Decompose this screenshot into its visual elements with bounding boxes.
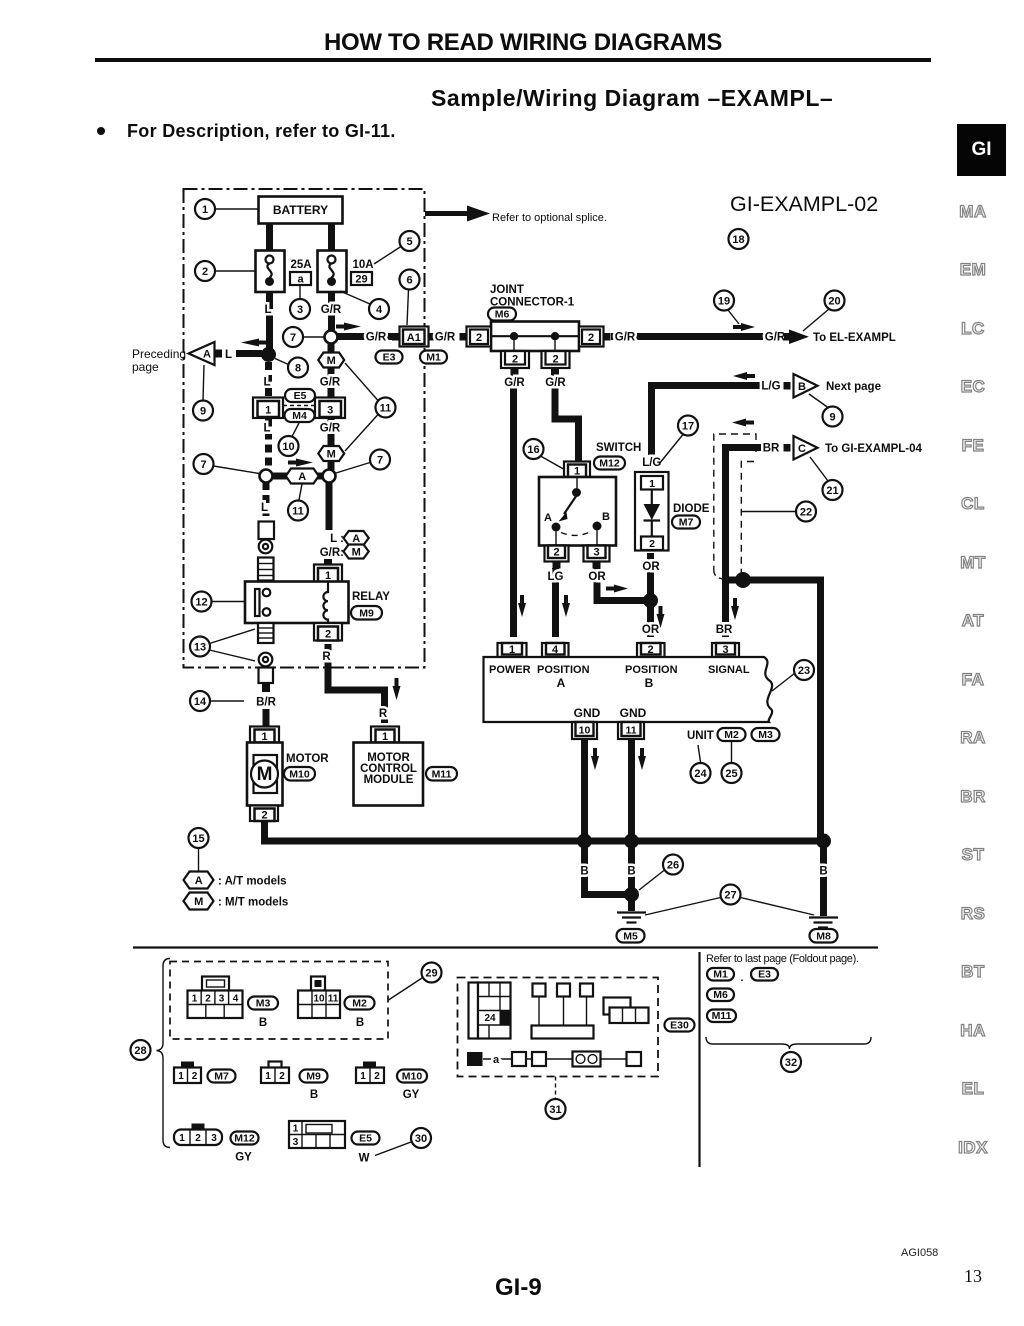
svg-text:11: 11 (380, 403, 392, 415)
motor control module U1 (354, 743, 424, 806)
tag M2 + colour B (345, 997, 375, 1030)
dashed option boundary around BR wire (714, 434, 756, 579)
option hexagon M on G/R branch (318, 343, 344, 398)
svg-text:3: 3 (593, 547, 599, 559)
svg-text:BR: BR (763, 443, 780, 455)
diagram id GI-EXAMPL-02 (730, 192, 878, 216)
callout 1 (195, 199, 258, 219)
fuse rating 25A + box a (290, 259, 312, 286)
svg-text:Preceding: Preceding (132, 347, 186, 361)
svg-text:2: 2 (205, 994, 211, 1005)
tag M12 + colour GY (231, 1132, 259, 1164)
svg-text:21: 21 (826, 485, 838, 497)
callout 31 (546, 1077, 566, 1120)
connector 3 (right branch) (315, 398, 345, 419)
svg-text:19: 19 (718, 296, 730, 308)
battery B1 (259, 197, 343, 224)
label SWITCH (596, 442, 641, 454)
svg-text:M6: M6 (495, 309, 510, 321)
svg-text:1: 1 (509, 644, 515, 656)
svg-text:1: 1 (360, 1071, 366, 1082)
svg-text:G/R: G/R (320, 423, 341, 435)
svg-text:1: 1 (179, 1133, 185, 1144)
junction dot splice 8 (261, 347, 276, 362)
svg-text:M2: M2 (352, 998, 367, 1010)
JC1 bottom pin 2 right (542, 351, 570, 376)
svg-text:: M/T models: : M/T models (218, 897, 288, 909)
svg-text:4: 4 (552, 644, 559, 656)
svg-text:G/R: G/R (504, 377, 525, 389)
switch S1 (539, 477, 616, 546)
svg-text:SIGNAL: SIGNAL (708, 664, 750, 676)
svg-text:10: 10 (313, 994, 325, 1005)
relay pin 1 connector (314, 559, 342, 582)
svg-text:POWER: POWER (489, 664, 531, 676)
svg-text:BATTERY: BATTERY (273, 203, 328, 217)
joint connector label (490, 284, 575, 309)
brace for callout 28 (157, 959, 171, 1148)
svg-text:3: 3 (297, 304, 303, 316)
wire L/G from switch area to next page B (652, 381, 781, 456)
JC1 left pin 2 (460, 327, 492, 347)
callout 25 (722, 742, 742, 784)
svg-text:MOTOR: MOTOR (286, 753, 329, 765)
connector face M2 (298, 977, 340, 1019)
connector tag E5 (285, 389, 315, 402)
svg-text:8: 8 (295, 363, 301, 375)
svg-text:9: 9 (829, 412, 835, 424)
tag M10 + colour GY (397, 1070, 427, 1102)
callout 23 (772, 660, 814, 691)
svg-text:To GI-EXAMPL-04: To GI-EXAMPL-04 (825, 443, 923, 455)
JC1 bottom pin 2 left (501, 351, 529, 376)
junction dot bus left (577, 834, 592, 849)
svg-text:.: . (741, 972, 744, 984)
junction dot OR (643, 593, 658, 608)
tag M3 + colour B (248, 997, 278, 1030)
ground symbol M5 (617, 913, 646, 923)
arrow to EL-EXAMPL (784, 330, 896, 345)
overlapped connector faces inside E30 (604, 998, 649, 1024)
svg-text:18: 18 (732, 234, 744, 246)
callout 21 (810, 457, 843, 500)
svg-text:15: 15 (192, 833, 204, 845)
motor M (M10) (247, 743, 283, 806)
svg-text:14: 14 (194, 696, 207, 708)
svg-text:10A: 10A (352, 259, 373, 271)
flow arrow right on OR wire (606, 585, 628, 593)
connector face M12 (174, 1124, 222, 1146)
callout 3 (290, 285, 310, 319)
svg-text:M7: M7 (214, 1071, 229, 1083)
svg-text:M: M (257, 764, 273, 785)
svg-text:E30: E30 (670, 1020, 689, 1032)
svg-text:L: L (225, 349, 232, 361)
svg-text:G/R: G/R (765, 332, 786, 344)
svg-text:BR: BR (716, 624, 733, 636)
svg-text:1: 1 (178, 1071, 184, 1082)
wire B GND10 to bus (581, 740, 588, 842)
wire G/R from fuse 29 to splice (321, 292, 342, 330)
svg-text:B: B (259, 1017, 267, 1029)
svg-text:GI-EXAMPL-02: GI-EXAMPL-02 (730, 192, 878, 216)
svg-text:4: 4 (376, 304, 383, 316)
callout 13 (190, 629, 255, 661)
tag M11 (last page) (707, 1010, 736, 1023)
label B on ground drop middle (627, 866, 635, 878)
junction dot bus right (816, 834, 831, 849)
svg-text:M: M (194, 896, 203, 908)
svg-text:Refer to last page (Foldout pa: Refer to last page (Foldout page). (706, 953, 859, 965)
relay sockets inside E30 (532, 984, 594, 1039)
unit tag M2 (718, 728, 746, 741)
svg-text:12: 12 (195, 597, 207, 609)
svg-text:B: B (356, 1017, 364, 1029)
svg-text:4: 4 (233, 994, 239, 1005)
grommet ring lower (259, 653, 273, 667)
dashed link line between connectors 1 and 3 (283, 405, 316, 407)
legend hexagon A A/T models (184, 872, 287, 889)
flow arrow down beside G/R unit wire (518, 595, 526, 617)
svg-text:29: 29 (355, 274, 367, 286)
svg-text:M: M (352, 547, 361, 559)
svg-text:MODULE: MODULE (364, 774, 414, 786)
svg-text:G/R:: G/R: (320, 547, 344, 559)
svg-text:M6: M6 (713, 989, 728, 1001)
dashed wire L below left splice (261, 482, 268, 519)
svg-text:7: 7 (200, 459, 206, 471)
svg-text:OR: OR (588, 571, 606, 583)
refer to last page note (706, 953, 859, 965)
svg-text:page: page (132, 360, 159, 374)
callout 17 (659, 416, 698, 465)
wire G/R below connector 3 with option hexagon M (318, 419, 344, 471)
svg-text:L: L (263, 377, 270, 389)
svg-text:M10: M10 (402, 1071, 423, 1083)
connector tag M1 (420, 351, 447, 364)
label B/R (256, 697, 277, 709)
connector face M3 (188, 977, 243, 1019)
svg-text:E3: E3 (383, 352, 396, 364)
wire BR to GI-EXAMPL-04 (716, 443, 780, 638)
bottom section vertical divider (698, 952, 700, 1167)
ground symbol M8 (809, 918, 838, 928)
svg-text:M2: M2 (724, 729, 739, 741)
svg-text:UNIT: UNIT (687, 730, 714, 742)
fuse 29 (10A) (318, 251, 347, 293)
unit pin 3 SIGNAL (712, 643, 739, 657)
grommet ring upper (259, 540, 273, 554)
connector face M10 (356, 1062, 384, 1084)
svg-text:11: 11 (292, 506, 304, 518)
svg-text:31: 31 (549, 1104, 561, 1116)
flow arrow down beside LG wire (562, 595, 570, 617)
grommet box lower (259, 668, 274, 693)
flow arrow down beside BR wire (731, 598, 739, 620)
wire OR below diode through junction to unit POSITION B (642, 553, 660, 637)
shield connector hatched below relay (258, 623, 274, 643)
svg-text:A: A (203, 349, 211, 361)
svg-text:1: 1 (265, 405, 271, 417)
svg-text:Refer to optional splice.: Refer to optional splice. (492, 212, 607, 224)
svg-text:L: L (263, 423, 270, 435)
svg-text:B: B (310, 1089, 318, 1101)
svg-text:1: 1 (265, 1071, 271, 1082)
callout 8 (275, 358, 308, 378)
unit pin 1 POWER (498, 643, 527, 657)
ground tag M5 (617, 929, 645, 943)
tag E3 (last page) (751, 968, 778, 981)
callout 12 (192, 592, 246, 612)
svg-text:32: 32 (785, 1057, 797, 1069)
legend hexagon M M/T models (184, 893, 289, 910)
svg-text:13: 13 (194, 642, 206, 654)
svg-text:1: 1 (649, 478, 655, 490)
svg-text:3: 3 (722, 644, 728, 656)
wire option labels L:A G/R:M (320, 531, 369, 559)
label G/R right of A1 (435, 332, 456, 344)
svg-text:26: 26 (667, 860, 679, 872)
relay pin 2 connector (314, 623, 342, 641)
dashed group box E30 (458, 978, 659, 1077)
page triangle B (next page) (784, 374, 881, 398)
flow arrow right above hexagon A (288, 459, 313, 467)
label B on ground drop right (819, 866, 827, 878)
svg-text:2: 2 (261, 810, 267, 822)
svg-text:a: a (297, 274, 304, 286)
label B on ground drop left (580, 866, 588, 878)
wire OR switch pin3 to junction (588, 568, 645, 601)
dash-dot harness boundary box (184, 189, 425, 668)
svg-text:G/R: G/R (321, 304, 342, 316)
svg-text:2: 2 (195, 1133, 201, 1144)
callout 27 (645, 885, 814, 916)
unit pin 11 GND (618, 722, 644, 739)
svg-text:23: 23 (798, 665, 810, 677)
callout 4 (340, 291, 389, 319)
svg-text:A: A (195, 875, 203, 887)
connector A1 (392, 327, 436, 347)
svg-text:E5: E5 (359, 1133, 372, 1145)
wire from right splice down to relay label block (326, 482, 333, 530)
callout 32 (781, 1052, 801, 1072)
diode tag M7 (672, 516, 700, 529)
svg-text:25A: 25A (290, 259, 311, 271)
svg-text:5: 5 (406, 236, 412, 248)
svg-text:GND: GND (574, 706, 601, 720)
splice open circle (7) on G/R (325, 331, 338, 344)
dashed wire L below connector 1 (263, 419, 270, 471)
svg-text:C: C (798, 443, 806, 455)
svg-text:3: 3 (293, 1137, 299, 1148)
junction dot at M5 drop (624, 887, 639, 902)
svg-text:L :: L : (330, 533, 344, 545)
module tag M11 (426, 767, 457, 781)
svg-text:B: B (798, 381, 806, 393)
tag E30 (665, 1019, 695, 1032)
svg-text:6: 6 (406, 275, 412, 287)
wire B/R to motor (263, 709, 270, 726)
connector tag M4 (285, 409, 315, 422)
callout 22 (742, 502, 817, 522)
grommet box upper (259, 522, 275, 540)
flow arrow left above L wire (241, 339, 266, 347)
unit box with torn edge (484, 657, 773, 722)
bottom section separator line (133, 946, 878, 948)
wire LG switch to unit POSITION A (548, 568, 564, 637)
label DIODE (673, 503, 710, 515)
svg-text:G/R: G/R (366, 332, 387, 344)
unit pin 10 GND (572, 722, 597, 739)
svg-text:W: W (359, 1153, 370, 1165)
wire middle B to ground M5 (628, 841, 635, 911)
svg-text:M10: M10 (289, 769, 310, 781)
svg-text:L/G: L/G (761, 381, 780, 393)
motor pin 2 connector (250, 806, 278, 822)
callout 16 (524, 439, 568, 471)
svg-text:A: A (298, 471, 306, 483)
wire left B branch to ground M5 (585, 841, 632, 895)
svg-text:10: 10 (282, 441, 294, 453)
flow arrow left above dashed box (732, 419, 754, 427)
svg-text:L: L (264, 304, 271, 316)
svg-text:M: M (327, 355, 336, 367)
svg-text:E3: E3 (758, 969, 771, 981)
wire B GND11 to bus (628, 740, 635, 842)
svg-text:GY: GY (403, 1089, 420, 1101)
ground bus wire B (265, 821, 824, 841)
flow arrow right on G/R wire (733, 323, 755, 331)
connector face M9 (261, 1062, 289, 1084)
svg-text:POSITION: POSITION (537, 664, 590, 676)
svg-text:11: 11 (625, 725, 636, 737)
svg-text:2: 2 (279, 1071, 285, 1082)
svg-text:SWITCH: SWITCH (596, 442, 641, 454)
svg-text:A: A (352, 533, 360, 545)
svg-text:G/R: G/R (435, 332, 456, 344)
tag M9 + colour B (300, 1070, 328, 1102)
svg-text:M7: M7 (679, 517, 694, 529)
callout 11 (345, 363, 396, 451)
svg-text:R: R (379, 708, 388, 720)
svg-text:30: 30 (415, 1133, 427, 1145)
wire right B to ground M8 (820, 841, 827, 916)
svg-text:3: 3 (219, 994, 225, 1005)
svg-text:24: 24 (694, 768, 707, 780)
wire G/R joint connector to EL-EXAMPL (611, 332, 786, 344)
callout 9 right (809, 394, 843, 427)
svg-text:25: 25 (725, 768, 737, 780)
fuse a (25A) (256, 251, 285, 293)
svg-text:2: 2 (553, 547, 559, 559)
svg-text:2: 2 (552, 354, 558, 366)
dashed group box 29 (170, 962, 388, 1040)
callout 14 (190, 691, 244, 711)
svg-text:GY: GY (235, 1152, 252, 1164)
svg-text:: A/T models: : A/T models (218, 876, 287, 888)
svg-text:M8: M8 (816, 931, 831, 943)
svg-text:M9: M9 (306, 1071, 321, 1083)
svg-text:E5: E5 (294, 390, 307, 402)
joint connector tag M6 (488, 308, 516, 321)
svg-text:M12: M12 (234, 1133, 255, 1145)
svg-text:M12: M12 (599, 458, 620, 470)
svg-text:G/R: G/R (545, 377, 566, 389)
callout 15 (189, 828, 209, 871)
svg-text:29: 29 (425, 968, 437, 980)
callout 24 (691, 745, 711, 783)
svg-text:JOINT: JOINT (490, 284, 524, 296)
svg-text:2: 2 (325, 629, 331, 641)
svg-text:3: 3 (211, 1133, 217, 1144)
callout 6 (400, 270, 420, 326)
switch pin 2 connector (545, 546, 569, 569)
svg-text:M11: M11 (432, 769, 452, 781)
wire L triangle to junction (225, 349, 262, 361)
svg-text:M9: M9 (359, 608, 374, 620)
splice row: open circle left (260, 470, 273, 483)
tag M6 (last page) (707, 989, 734, 1002)
fuse block face inside E30 (469, 983, 511, 1039)
svg-text:1: 1 (293, 1124, 299, 1135)
motor pin 1 connector (250, 727, 279, 744)
svg-text:2: 2 (374, 1071, 380, 1082)
svg-text:RELAY: RELAY (352, 591, 390, 603)
connector face M7 (174, 1062, 201, 1084)
svg-text:9: 9 (200, 406, 206, 418)
svg-text:B: B (580, 866, 588, 878)
svg-text:10: 10 (579, 725, 591, 737)
svg-text:1: 1 (202, 204, 208, 216)
svg-text:A1: A1 (407, 332, 421, 344)
junction dot on BR branch (735, 572, 751, 588)
unit pin 4 POSITION A (542, 643, 569, 657)
callout 29 (389, 963, 442, 1001)
svg-text:GND: GND (620, 706, 647, 720)
wire battery to fuse 29 (328, 224, 335, 252)
wire G/R JC1 bottom-right down to switch (545, 376, 578, 462)
svg-text:2: 2 (192, 1071, 198, 1082)
svg-text:17: 17 (682, 421, 694, 433)
label L/G above diode (642, 457, 661, 469)
svg-text:a: a (493, 1054, 500, 1066)
svg-text:M: M (327, 449, 336, 461)
wire battery to fuse a (266, 224, 273, 252)
motor tag M10 (284, 767, 315, 781)
fuse rating 10A + box 29 (351, 259, 374, 286)
svg-text:16: 16 (527, 444, 539, 456)
connector 1 (left branch) (253, 398, 283, 419)
callout 30 (375, 1128, 431, 1156)
svg-text:G/R: G/R (615, 332, 636, 344)
svg-text:2: 2 (202, 266, 208, 278)
svg-text:L/G: L/G (642, 457, 661, 469)
svg-text:R: R (322, 651, 331, 663)
svg-text:M3: M3 (256, 998, 271, 1010)
label UNIT (687, 730, 714, 742)
wire G/R JC1 bottom-left down to unit POWER (504, 376, 525, 637)
svg-text:2: 2 (649, 538, 655, 550)
svg-text:B: B (627, 866, 635, 878)
svg-text:OR: OR (642, 561, 660, 573)
svg-text:28: 28 (134, 1045, 146, 1057)
unit pin 2 POSITION B (637, 643, 665, 657)
svg-text:B: B (819, 866, 827, 878)
svg-text:B: B (602, 511, 610, 523)
svg-text:POSITION: POSITION (625, 664, 678, 676)
callout 7 right (336, 450, 390, 474)
switch pin 1 connector (564, 462, 590, 478)
